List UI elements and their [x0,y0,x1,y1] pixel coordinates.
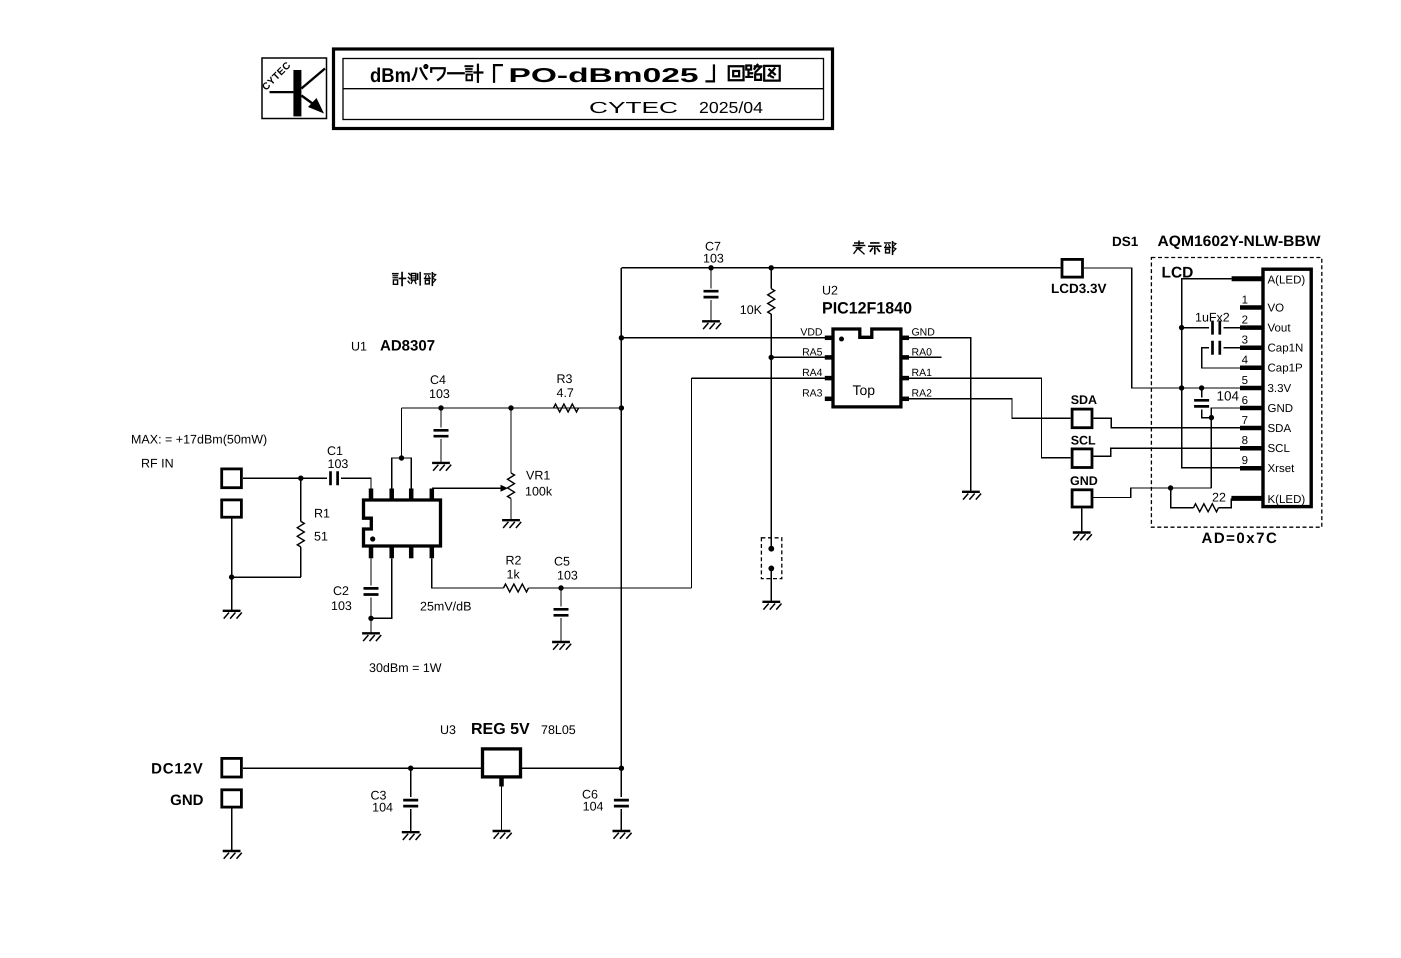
svg-text:1k: 1k [507,568,521,582]
svg-text:5: 5 [1242,375,1248,387]
svg-text:103: 103 [429,387,450,401]
svg-text:K(LED): K(LED) [1268,494,1306,506]
svg-text:6: 6 [1242,395,1248,407]
svg-text:REG 5V: REG 5V [471,721,530,738]
svg-text:VR1: VR1 [526,469,550,483]
svg-text:3.3V: 3.3V [1268,383,1292,395]
svg-text:1: 1 [1242,295,1248,307]
svg-text:PO-dBm025: PO-dBm025 [509,65,699,87]
svg-text:CYTEC: CYTEC [589,100,678,117]
svg-text:Cap1P: Cap1P [1268,363,1303,375]
svg-text:RA3: RA3 [802,388,823,400]
svg-text:Top: Top [853,382,876,398]
svg-text:30dBm = 1W: 30dBm = 1W [369,661,442,675]
svg-text:3: 3 [1242,335,1248,347]
svg-text:U1: U1 [351,340,367,354]
svg-text:RA5: RA5 [802,346,823,358]
svg-text:9: 9 [1242,455,1248,467]
svg-text:R3: R3 [557,372,573,386]
svg-text:10K: 10K [740,303,763,317]
svg-text:C2: C2 [333,584,349,598]
svg-text:R2: R2 [506,554,522,568]
svg-text:DS1: DS1 [1112,234,1139,249]
svg-text:A(LED): A(LED) [1268,275,1306,287]
svg-text:8: 8 [1242,435,1248,447]
svg-text:SCL: SCL [1071,434,1096,448]
svg-text:GND: GND [170,792,204,809]
svg-text:LCD3.3V: LCD3.3V [1051,281,1107,296]
svg-text:SCL: SCL [1268,443,1291,455]
svg-text:22: 22 [1212,491,1226,505]
svg-text:2025/04: 2025/04 [699,100,763,117]
svg-text:C1: C1 [327,444,343,458]
svg-text:AD=0x7C: AD=0x7C [1202,530,1279,547]
svg-text:C4: C4 [430,373,446,387]
svg-text:RF IN: RF IN [141,457,174,471]
svg-text:VO: VO [1268,303,1285,315]
svg-text:104: 104 [372,801,393,815]
svg-text:U2: U2 [822,284,838,298]
svg-text:VDD: VDD [800,327,823,339]
svg-text:RA4: RA4 [802,367,823,379]
svg-text:RA1: RA1 [912,367,933,379]
svg-text:1uFx2: 1uFx2 [1195,311,1230,325]
svg-text:104: 104 [1217,389,1240,404]
svg-text:4: 4 [1242,355,1249,367]
svg-text:103: 103 [328,457,349,471]
svg-text:AD8307: AD8307 [380,338,435,355]
svg-text:104: 104 [583,800,604,814]
svg-text:Xrset: Xrset [1268,463,1296,475]
svg-text:Cap1N: Cap1N [1268,343,1304,355]
svg-text:PIC12F1840: PIC12F1840 [822,300,912,318]
svg-text:RA2: RA2 [912,388,933,400]
svg-text:GND: GND [1070,474,1098,488]
svg-text:GND: GND [912,327,936,339]
svg-text:GND: GND [1268,403,1294,415]
svg-text:RA0: RA0 [912,346,933,358]
svg-text:R1: R1 [314,507,330,521]
svg-text:103: 103 [331,599,352,613]
svg-text:SDA: SDA [1071,393,1097,407]
svg-text:103: 103 [703,252,724,266]
svg-text:78L05: 78L05 [541,723,576,737]
svg-text:AQM1602Y-NLW-BBW: AQM1602Y-NLW-BBW [1158,233,1322,250]
svg-text:7: 7 [1242,415,1248,427]
svg-text:100k: 100k [525,485,553,499]
svg-text:SDA: SDA [1268,423,1292,435]
svg-text:4.7: 4.7 [557,386,574,400]
svg-text:C5: C5 [554,555,570,569]
svg-text:U3: U3 [440,723,456,737]
svg-text:Vout: Vout [1268,323,1292,335]
svg-text:103: 103 [557,569,578,583]
svg-text:DC12V: DC12V [151,761,203,778]
svg-text:dBm: dBm [370,65,411,87]
svg-text:25mV/dB: 25mV/dB [420,600,471,614]
svg-text:2: 2 [1242,315,1248,327]
svg-text:LCD: LCD [1162,265,1194,282]
svg-text:51: 51 [314,530,328,544]
svg-text:MAX: = +17dBm(50mW): MAX: = +17dBm(50mW) [131,433,267,447]
